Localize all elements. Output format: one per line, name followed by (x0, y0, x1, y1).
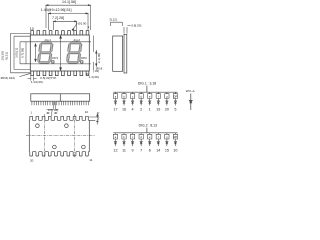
svg-text:1.44@9=12.96[.51]: 1.44@9=12.96[.51] (41, 8, 72, 12)
svg-text:2: 2 (140, 108, 142, 112)
leader arrow (72, 25, 77, 31)
segment f pin 19 (156, 92, 160, 111)
svg-text:0.8[.03]: 0.8[.03] (131, 23, 141, 27)
pin dia leader (20, 73, 32, 76)
bv right dim (89, 113, 98, 125)
bv pin width dim (46, 112, 57, 117)
svg-text:DP: DP (174, 95, 178, 99)
dim line 7.2 (54, 21, 77, 30)
svg-text:17: 17 (113, 108, 117, 112)
svg-text:16: 16 (122, 108, 126, 112)
svg-text:1.8(.05): 1.8(.05) (96, 112, 100, 122)
svg-text:1.4(.06): 1.4(.06) (89, 75, 99, 79)
segment a pin 12 (113, 133, 117, 153)
svg-text:19: 19 (156, 108, 160, 112)
svg-text:9: 9 (132, 149, 134, 153)
svg-text:DIG.1 : 3,18: DIG.1 : 3,18 (138, 82, 156, 86)
bottom view centerlines (26, 114, 95, 158)
svg-text:14: 14 (156, 149, 160, 153)
dim extension right (93, 36, 95, 53)
svg-text:2.1(.08): 2.1(.08) (97, 53, 101, 63)
segment f pin 14 (156, 133, 160, 153)
bus line (113, 86, 177, 93)
digit 1 seven-segment (37, 42, 53, 64)
segment DP pin 10 (173, 133, 177, 153)
svg-text:1: 1 (149, 108, 151, 112)
legend diode (189, 94, 192, 111)
svg-text:WO–A: WO–A (186, 89, 195, 93)
bottom view circles (36, 124, 40, 128)
svg-text:8[.31]: 8[.31] (4, 52, 8, 60)
segment c pin 9 (130, 133, 134, 153)
svg-text:20: 20 (165, 108, 169, 112)
svg-text:20: 20 (30, 158, 34, 162)
front view bottom pins (31, 71, 89, 76)
dim line 14.1 (46, 5, 90, 30)
svg-text:11: 11 (89, 158, 92, 162)
segment a pin 17 (113, 92, 117, 111)
side view body (113, 36, 123, 71)
svg-text:14.1[.56]: 14.1[.56] (62, 0, 76, 4)
svg-text:10: 10 (30, 27, 34, 31)
svg-text:10: 10 (85, 110, 89, 114)
segment DP pin 5 (173, 92, 177, 111)
dim line 12.96 (48, 13, 88, 30)
svg-text:3.05[.1]: 3.05[.1] (15, 48, 19, 58)
svg-text:dig.1: dig.1 (45, 38, 52, 42)
side dim 0.8 (124, 26, 131, 34)
digit height dim (35, 43, 37, 62)
segment e pin 6 (148, 133, 152, 153)
side view face plate (124, 34, 127, 73)
svg-text:0.5[.04]: 0.5[.04] (48, 108, 58, 112)
svg-text:15: 15 (165, 149, 169, 153)
digit 2 seven-segment (66, 42, 82, 64)
svg-text:7.2[.28]: 7.2[.28] (52, 16, 64, 20)
svg-text:11: 11 (122, 149, 126, 153)
svg-text:3[.12]: 3[.12] (109, 17, 117, 21)
svg-text:1.44(.06): 1.44(.06) (31, 80, 43, 84)
svg-text:dig.2: dig.2 (74, 38, 81, 42)
segment b pin 16 (122, 92, 126, 111)
segment d pin 2 (139, 92, 143, 111)
segment g pin 20 (165, 92, 169, 111)
right dim 2.1 (94, 50, 98, 70)
center vertical dim (60, 35, 62, 71)
pin width dim under pin1 (28, 76, 37, 80)
svg-text:DP: DP (174, 135, 178, 139)
svg-text:12: 12 (113, 149, 117, 153)
svg-text:DIG.2 : 8,13: DIG.2 : 8,13 (139, 124, 157, 128)
svg-text:7: 7 (140, 149, 142, 153)
svg-text:DP1: DP1 (52, 56, 58, 60)
DP2 square (81, 61, 83, 63)
segment e pin 1 (148, 92, 152, 111)
segment d pin 7 (139, 133, 143, 153)
segment g pin 15 (165, 133, 169, 153)
svg-text:[.03]: [.03] (93, 69, 99, 73)
svg-text:2-Ø1.90: 2-Ø1.90 (76, 21, 87, 25)
svg-text:5: 5 (174, 108, 176, 112)
svg-text:10: 10 (173, 149, 177, 153)
svg-text:Ø0.8(.024): Ø0.8(.024) (1, 76, 15, 80)
svg-text:4: 4 (132, 108, 134, 112)
segment c pin 4 (130, 92, 134, 111)
top strip view (31, 94, 90, 101)
bottom view outline (29, 116, 89, 156)
segment b pin 11 (122, 133, 126, 153)
DP1 square (52, 61, 54, 63)
side dim 3 (110, 22, 122, 26)
left dim stack lines (11, 33, 92, 72)
bus line (113, 128, 177, 133)
front view top pins (31, 31, 89, 35)
svg-text:DP2: DP2 (81, 56, 87, 60)
svg-text:6: 6 (149, 149, 151, 153)
svg-text:6.7[.09]: 6.7[.09] (21, 48, 25, 58)
front view body (30, 35, 89, 71)
